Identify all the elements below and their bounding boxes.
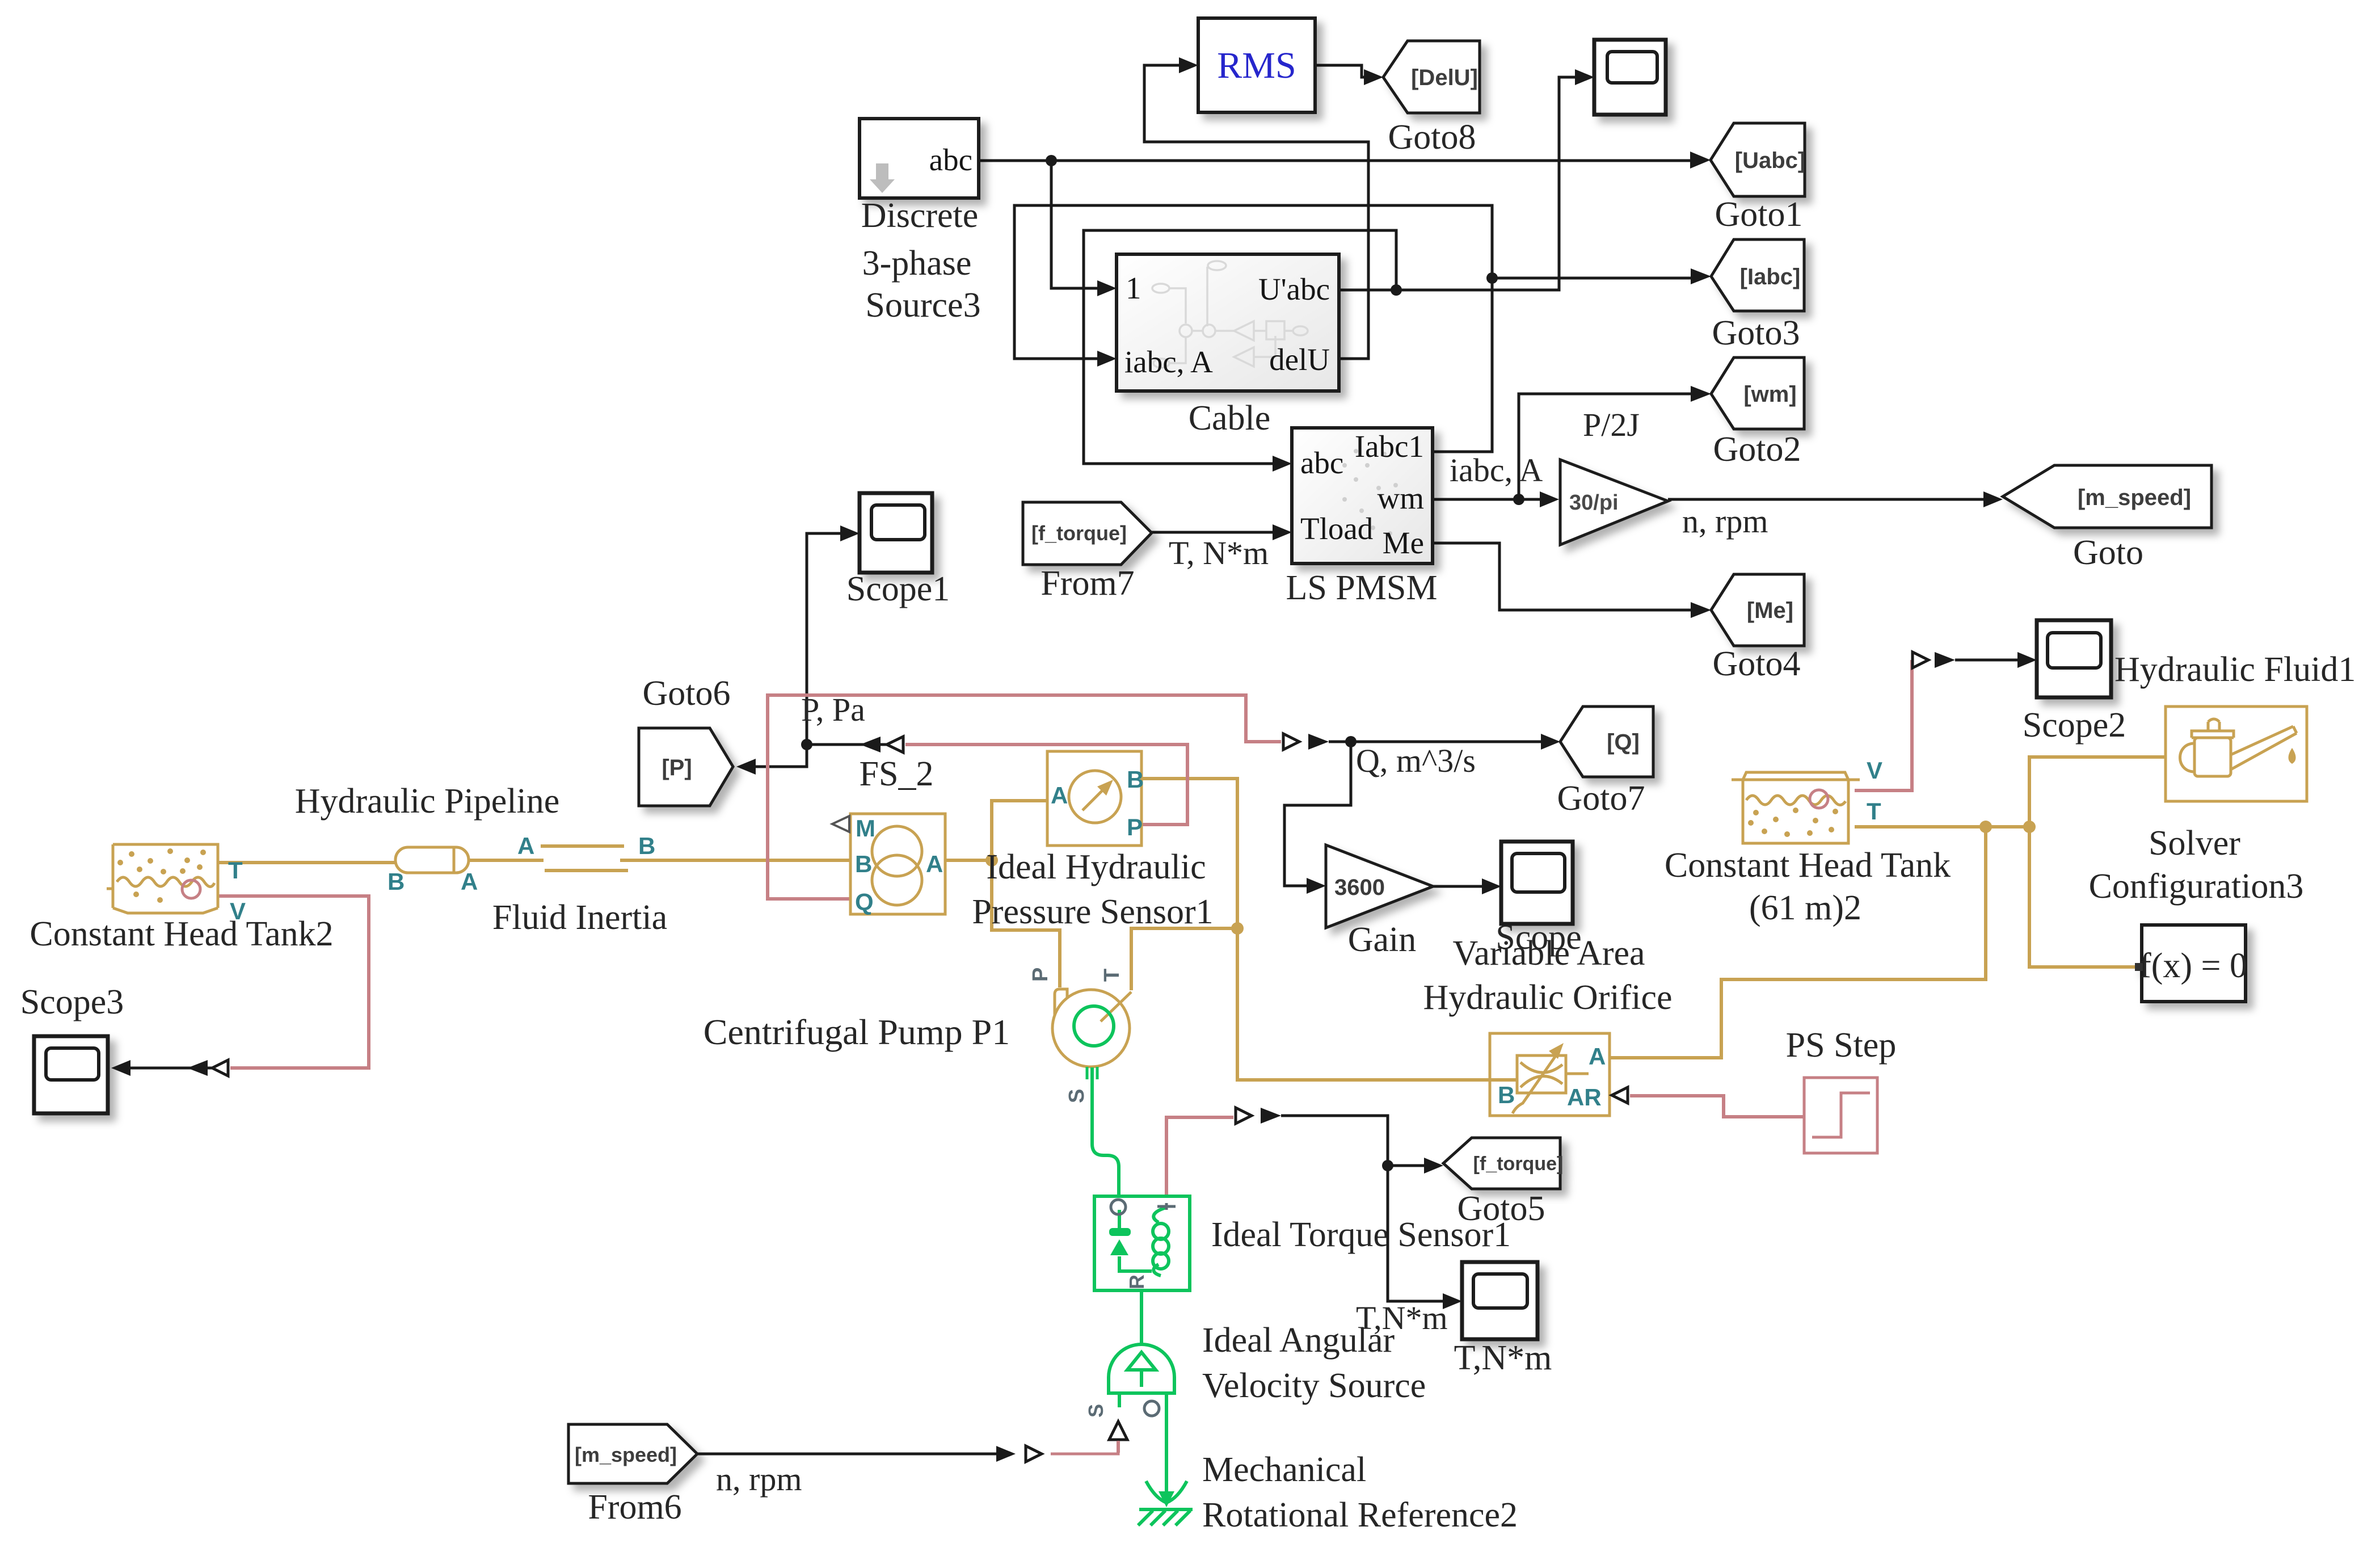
wire P Pa black (755, 745, 903, 767)
svg-text:T: T (1100, 969, 1124, 982)
FS_2 M hollow arrow (832, 816, 849, 832)
svg-text:Scope2: Scope2 (2023, 706, 2126, 745)
block Scope1 (860, 493, 932, 573)
block RMS U1 (1198, 18, 1315, 112)
svg-text:3600: 3600 (1334, 875, 1385, 900)
wire gain to Scope (1433, 885, 1489, 888)
svg-text:[P]: [P] (662, 755, 692, 780)
ground Mechanical Rotational Reference2 (1138, 1481, 1193, 1525)
wire Fluid Inertia to pipeline (469, 859, 544, 862)
svg-text:A: A (926, 851, 943, 877)
wire PS Step to orifice AR (1630, 1096, 1804, 1117)
svg-text:FS_2: FS_2 (860, 755, 934, 793)
svg-text:A: A (1589, 1043, 1606, 1070)
wire RMS out to Goto8 (1315, 65, 1371, 77)
svg-text:From6: From6 (588, 1488, 681, 1526)
svg-text:Tload: Tload (1300, 511, 1373, 546)
svg-text:B: B (855, 851, 872, 877)
block Discrete 3-phase Source3 (860, 119, 979, 198)
block Constant Head Tank2 (107, 844, 218, 913)
svg-text:PS Step: PS Step (1786, 1026, 1897, 1065)
svg-text:Goto5: Goto5 (1458, 1189, 1545, 1228)
goto Goto4 (1711, 574, 1804, 646)
wire torque black to junction (1281, 1116, 1388, 1166)
wire tank61 V (1855, 660, 1912, 790)
svg-text:[f_torque]: [f_torque] (1473, 1153, 1564, 1175)
junction U'abc (1391, 284, 1402, 296)
wire velocity source S (1117, 1441, 1120, 1453)
wire to f(x)=0 (2029, 827, 2138, 967)
svg-text:Pressure Sensor1: Pressure Sensor1 (972, 893, 1213, 931)
svg-text:S: S (1084, 1404, 1107, 1418)
block Ideal Angular Velocity Source (1109, 1344, 1174, 1407)
block Scope2 (2037, 620, 2111, 697)
block Hydraulic Pipeline symbol (541, 846, 628, 870)
svg-text:30/pi: 30/pi (1569, 491, 1619, 515)
svg-text:[m_speed]: [m_speed] (575, 1443, 677, 1466)
S port open triangle (1109, 1422, 1127, 1440)
wire FS_2 A to junction (945, 859, 992, 862)
svg-text:Q: Q (855, 889, 874, 915)
svg-text:delU: delU (1269, 342, 1330, 377)
svg-text:[f_torque]: [f_torque] (1031, 522, 1127, 545)
svg-text:RMS: RMS (1217, 45, 1296, 86)
svg-text:Fluid Inertia: Fluid Inertia (492, 898, 667, 937)
junction P Pa (801, 739, 812, 750)
svg-text:A: A (461, 868, 478, 895)
svg-text:Ideal Hydraulic: Ideal Hydraulic (986, 848, 1206, 886)
wire Iabc1 to Cable iabc (1014, 205, 1492, 452)
svg-text:Hydraulic Pipeline: Hydraulic Pipeline (295, 782, 560, 821)
svg-text:Hydraulic Orifice: Hydraulic Orifice (1423, 978, 1673, 1017)
svg-text:[wm]: [wm] (1743, 382, 1796, 407)
svg-text:Variable Area: Variable Area (1452, 934, 1645, 973)
wire Q black (1329, 741, 1548, 743)
svg-text:P: P (1127, 814, 1143, 840)
from From7 (1023, 502, 1152, 565)
wire sensor A to pump P (992, 801, 1060, 987)
svg-text:Velocity Source: Velocity Source (1202, 1366, 1426, 1405)
block Constant Head Tank 61m2 (1732, 772, 1860, 843)
goto Goto6 [P] (639, 728, 733, 806)
svg-text:abc: abc (1300, 445, 1343, 480)
block Scope (top right) (1594, 40, 1666, 115)
block Variable Area Hydraulic Orifice (1490, 1033, 1610, 1116)
wire From6 n rpm (697, 1453, 1003, 1456)
wire pump S to torque sensor C (1092, 1067, 1119, 1196)
goto Goto2 (1711, 358, 1804, 429)
svg-text:Scope3: Scope3 (20, 983, 124, 1021)
svg-text:iabc, A: iabc, A (1124, 344, 1213, 379)
wire wm to gain 30/pi (1433, 498, 1547, 501)
svg-text:wm: wm (1378, 481, 1425, 515)
svg-text:abc: abc (929, 142, 972, 177)
wire to Scope2 (1955, 659, 2024, 662)
wire wm branch to Goto2 (1519, 394, 1699, 499)
wire n rpm gain to Goto m_speed (1668, 498, 1990, 501)
goto Goto8 (1383, 41, 1480, 113)
svg-text:[Me]: [Me] (1747, 598, 1793, 623)
wire to TNm scope (1388, 1166, 1450, 1301)
svg-text:Gain: Gain (1348, 920, 1417, 959)
svg-text:Hydraulic Fluid1: Hydraulic Fluid1 (2114, 650, 2356, 689)
svg-text:Goto6: Goto6 (643, 674, 731, 713)
svg-text:[Q]: [Q] (1607, 730, 1640, 755)
svg-text:Goto2: Goto2 (1713, 430, 1801, 469)
svg-text:Scope1: Scope1 (846, 570, 950, 608)
block Scope3 (34, 1036, 108, 1113)
svg-text:Goto8: Goto8 (1388, 118, 1476, 157)
from From6 [m_speed] (568, 1424, 697, 1483)
junction tank T 1 (1979, 821, 1992, 833)
svg-text:Goto4: Goto4 (1713, 645, 1801, 683)
svg-text:(61 m)2: (61 m)2 (1749, 889, 1861, 927)
wire FS_2 Q loop (768, 695, 1281, 899)
wire to Hydraulic Fluid1 (2029, 757, 2166, 827)
gain Gain 3600 (1326, 845, 1433, 928)
wire to Goto5 (1388, 1164, 1431, 1167)
svg-text:[DelU]: [DelU] (1411, 65, 1478, 90)
torque sensor port glyphs (1111, 1200, 1176, 1214)
svg-text:Rotational Reference2: Rotational Reference2 (1202, 1496, 1518, 1534)
svg-text:Me: Me (1383, 525, 1424, 560)
svg-text:T,N*m: T,N*m (1454, 1339, 1552, 1377)
block Centrifugal Pump P1 (1052, 989, 1131, 1067)
wire pipeline to FS_2 B (620, 859, 850, 862)
junction tank T 2 (2023, 821, 2036, 833)
svg-text:[m_speed]: [m_speed] (2078, 485, 2191, 510)
wire abc branch to Cable port 1 (1051, 161, 1104, 288)
svg-text:Cable: Cable (1189, 399, 1271, 438)
svg-text:AR: AR (1567, 1084, 1602, 1111)
block Scope TNm (1462, 1262, 1537, 1339)
block Ideal Torque Sensor1 (1094, 1196, 1190, 1290)
svg-text:n, rpm: n, rpm (716, 1461, 802, 1498)
goto Goto7 [Q] (1560, 706, 1653, 777)
svg-text:Solver: Solver (2149, 824, 2240, 863)
block Ideal Hydraulic Pressure Sensor1 (1047, 751, 1141, 846)
svg-text:From7: From7 (1041, 564, 1134, 603)
arrow into Goto6 (736, 759, 756, 775)
wire delU feedback to RMS (1144, 65, 1368, 359)
wire torque sensor R to velocity source (1140, 1290, 1143, 1344)
block Cable (1117, 254, 1339, 391)
svg-text:U'abc: U'abc (1258, 272, 1330, 306)
svg-text:T, N*m: T, N*m (1169, 535, 1269, 571)
wire tank2 T to Fluid Inertia (218, 861, 395, 864)
svg-text:iabc, A: iabc, A (1450, 452, 1543, 489)
svg-text:f(x) = 0: f(x) = 0 (2139, 947, 2247, 985)
svg-text:S: S (1065, 1089, 1089, 1103)
goto Goto1 (1711, 123, 1805, 196)
svg-text:P: P (1029, 968, 1052, 982)
junction abc (1046, 155, 1057, 166)
svg-text:Mechanical: Mechanical (1202, 1450, 1366, 1489)
svg-text:B: B (1127, 766, 1144, 793)
wire From7 to Tload (1152, 531, 1279, 534)
svg-text:M: M (856, 815, 875, 842)
junction pump T sensor B (1231, 922, 1244, 935)
block Scope (middle) (1501, 842, 1573, 924)
arrow into Goto1 (1690, 152, 1711, 169)
svg-text:[Uabc]: [Uabc] (1735, 148, 1805, 173)
wire orifice A loop to tank T (1610, 827, 1986, 1058)
wire velocity source C to ground (1165, 1407, 1168, 1503)
tank2 pump intake circle (182, 880, 200, 898)
svg-text:Constant Head Tank2: Constant Head Tank2 (30, 915, 333, 953)
block Fluid Inertia (395, 847, 469, 873)
converter arrows P Pa (860, 737, 881, 752)
goto Goto (m_speed) (2003, 465, 2211, 528)
svg-text:LS PMSM: LS PMSM (1286, 569, 1437, 607)
svg-text:Iabc1: Iabc1 (1355, 429, 1424, 464)
svg-text:1: 1 (1126, 271, 1141, 305)
svg-text:T: T (228, 857, 243, 884)
svg-text:Configuration3: Configuration3 (2089, 867, 2304, 906)
junction wm (1513, 494, 1524, 505)
svg-text:Goto3: Goto3 (1712, 314, 1800, 352)
gain 30/pi (1560, 460, 1668, 545)
block PS Step (1804, 1078, 1877, 1153)
wire pump T up (1131, 928, 1237, 990)
wire Iabc1 branch to Goto3 (1492, 277, 1699, 280)
wire sensor P to converter (905, 745, 1187, 825)
svg-text:T,N*m: T,N*m (1356, 1300, 1448, 1336)
svg-text:n, rpm: n, rpm (1682, 503, 1768, 540)
svg-text:A: A (517, 832, 534, 859)
junction FS_2 A (985, 854, 998, 867)
converter arrows Scope2 (1913, 652, 1928, 668)
svg-text:Centrifugal Pump P1: Centrifugal Pump P1 (704, 1012, 1010, 1052)
wire tank2 V to Scope3 (218, 896, 369, 1068)
svg-text:Discrete: Discrete (861, 196, 979, 235)
orifice AR hollow triangle (1612, 1087, 1628, 1103)
goto Goto3 (1711, 239, 1804, 311)
wire abc Source3 to Goto1 (979, 159, 1697, 162)
svg-text:A: A (1051, 782, 1068, 809)
svg-text:Source3: Source3 (865, 286, 980, 325)
svg-text:Constant Head Tank: Constant Head Tank (1665, 846, 1951, 885)
svg-text:Q, m^3/s: Q, m^3/s (1356, 742, 1476, 779)
svg-text:Goto7: Goto7 (1557, 779, 1645, 818)
svg-text:Goto1: Goto1 (1715, 195, 1803, 234)
svg-text:Goto: Goto (2073, 533, 2143, 572)
svg-text:B: B (1498, 1082, 1515, 1108)
wire Me to Goto4 (1433, 543, 1699, 610)
svg-text:[Iabc]: [Iabc] (1740, 264, 1801, 289)
wire U'abc branch to LS PMSM abc (1084, 230, 1396, 464)
svg-text:B: B (387, 868, 405, 895)
wire Q branch to gain 3600 (1284, 742, 1351, 886)
wire U'abc to top Scope (1339, 77, 1582, 290)
svg-text:B: B (638, 832, 655, 859)
converter arrows torque (1236, 1108, 1252, 1124)
svg-text:V: V (1867, 757, 1882, 784)
svg-text:P/2J: P/2J (1583, 406, 1640, 443)
svg-text:R: R (1125, 1275, 1148, 1289)
goto Goto5 [f_torque] (1443, 1138, 1563, 1189)
wire tank61 T (1855, 825, 2029, 829)
block Hydraulic Fluid1 (2166, 706, 2307, 801)
svg-text:T: T (1867, 798, 1881, 825)
wire to orifice B (1237, 928, 1517, 1080)
junction Iabc1 (1486, 272, 1498, 284)
wire Scope3 feed black (120, 1067, 213, 1070)
wire sensor B down (1141, 779, 1237, 928)
wire Scope1 feed (807, 533, 847, 745)
block FS_2 flow sensor (850, 814, 945, 914)
block f(x)=0 (2135, 925, 2247, 1002)
converter arrows Q (1283, 734, 1299, 750)
block LS PMSM (1292, 428, 1433, 563)
svg-text:3-phase: 3-phase (862, 244, 972, 283)
wire torque sensor T (1166, 1117, 1233, 1196)
